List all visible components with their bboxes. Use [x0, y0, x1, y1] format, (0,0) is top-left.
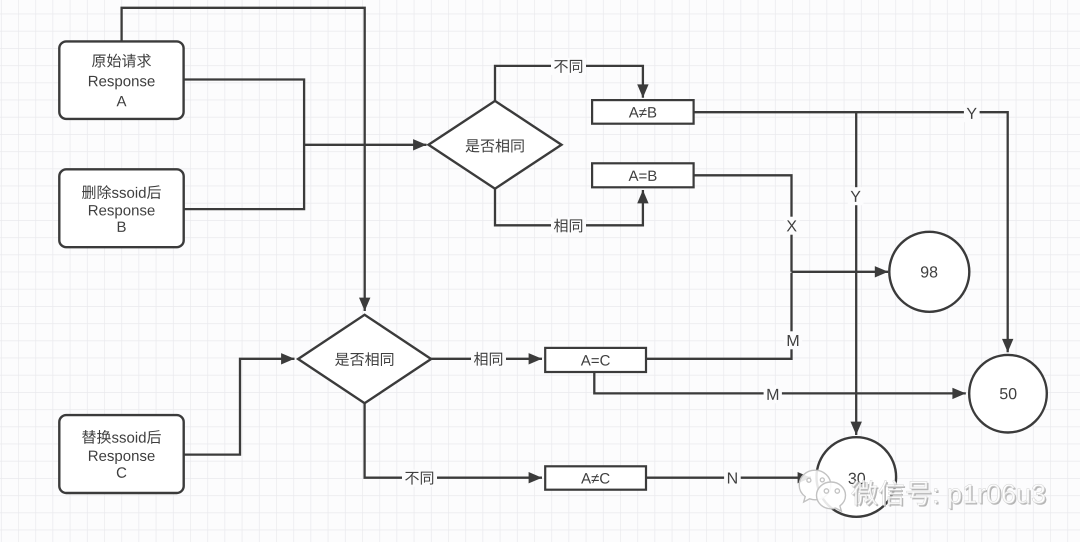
rect A=C [545, 348, 646, 372]
rect A≠C [545, 466, 646, 489]
wire from D1 bottom to box A=B (相同) [495, 189, 649, 226]
wire from A≠B right to circle 50 top (Y) [694, 112, 1014, 352]
label M on A=C up wire [784, 331, 802, 349]
wire from D2 bottom to A≠C left (不同) [365, 403, 542, 483]
wire from A=C right up (M) to junction [646, 273, 792, 359]
wire from box C right to D2 left [184, 353, 295, 455]
rect A=B [592, 163, 694, 187]
rect A≠B [592, 100, 694, 124]
circle 98 [889, 232, 969, 312]
watermark wechat icon [799, 470, 845, 511]
label Y on branch wire [848, 187, 864, 205]
wire junction to circle 98 left [792, 266, 889, 277]
diamond D2 是否相同 [298, 315, 431, 403]
wire from box A right and box B right merging at x=304 [184, 80, 305, 210]
wire branch Y down to circle 30 top [851, 112, 862, 435]
box C 替换ssoid后 Response C [59, 415, 183, 493]
box B 删除ssoid后 Response B [59, 169, 183, 247]
label X on A=B wire [784, 217, 800, 235]
label N on A≠C wire [724, 469, 741, 487]
box A 原始请求 Response A [59, 41, 183, 119]
label 相同 on D2 right wire [471, 351, 506, 368]
wire from D1 top to box A≠B (不同) [495, 66, 649, 101]
wire from A=C bottom to circle 50 left (M) [594, 372, 966, 399]
wire from A≠C right to circle 30 left (N) [646, 472, 811, 483]
label Y on A≠B wire [964, 104, 980, 122]
wire branch into diamond D1 left [304, 139, 426, 150]
circle 30 [817, 437, 897, 517]
wire from A=B right down (X) to junction [694, 175, 792, 271]
label 相同 on D1 bottom wire [551, 217, 586, 234]
label M on A=C bottom wire [764, 385, 782, 403]
circle 50 [969, 355, 1047, 433]
wire from D2 right to A=C left (相同) [431, 353, 542, 364]
wire from box A top to diamond D2 top [122, 8, 371, 311]
diamond D1 是否相同 [429, 101, 562, 189]
label 不同 on D2 bottom wire [402, 470, 437, 487]
watermark text 微信号: p1r06u3 [851, 480, 1046, 510]
label 不同 on D1 top wire [551, 58, 586, 75]
